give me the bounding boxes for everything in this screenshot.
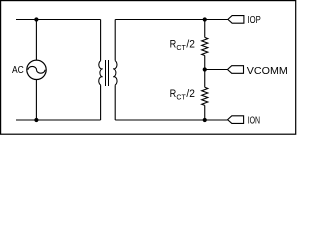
- transformer T1 primary lead: [100, 20, 102, 61]
- transformer core line 2: [108, 60, 110, 86]
- terminal tag ION: [228, 116, 244, 124]
- wire: resistor R2 to ION junction: [204, 105, 206, 120]
- transformer T1 primary winding: [99, 61, 103, 85]
- transformer T1 secondary winding: [113, 61, 117, 85]
- wire: secondary top to IOP: [115, 19, 228, 21]
- label RCT/2 upper: [170, 38, 195, 51]
- wire: AC source vertical bottom: [35, 80, 37, 120]
- AC source V1 circle: [27, 60, 46, 79]
- svg-text:R: R: [170, 88, 177, 100]
- svg-text:AC: AC: [12, 65, 24, 76]
- resistor R1 (RCT/2) zigzag: [202, 37, 208, 55]
- transformer core line 1: [105, 60, 107, 86]
- wire: left loop top: [16, 19, 101, 21]
- svg-text:R: R: [170, 38, 177, 50]
- svg-text:/2: /2: [186, 88, 195, 100]
- wire: VCOMM junction to resistor R2: [204, 70, 206, 88]
- terminal tag VCOMM: [228, 66, 244, 74]
- node: junction dot bottom of AC source: [34, 118, 38, 122]
- node: junction dot top of AC source: [34, 17, 38, 21]
- svg-text:IOP: IOP: [248, 15, 262, 26]
- svg-text:ION: ION: [248, 116, 260, 127]
- svg-text:CT: CT: [176, 43, 186, 52]
- wire: secondary bottom to ION: [115, 119, 228, 121]
- wire: junction to resistor R1: [204, 20, 206, 38]
- wire: AC source vertical top: [35, 20, 37, 61]
- wire: VCOMM tap: [205, 69, 228, 71]
- svg-text:CT: CT: [176, 92, 186, 101]
- AC source sine wave: [28, 66, 45, 73]
- transformer T1 secondary lead: [114, 20, 116, 61]
- terminal tag IOP: [228, 16, 244, 24]
- wire: left loop bottom: [16, 119, 101, 121]
- resistor R2 (RCT/2) zigzag: [202, 87, 208, 105]
- svg-text:/2: /2: [186, 38, 195, 50]
- border frame: [1, 1, 296, 135]
- node: junction dot ION: [203, 118, 207, 122]
- node: junction dot VCOMM: [203, 67, 207, 71]
- wire: resistor R1 to VCOMM junction: [204, 56, 206, 70]
- node: junction dot IOP: [203, 17, 207, 21]
- label RCT/2 lower: [170, 88, 195, 102]
- svg-text:VCOMM: VCOMM: [247, 66, 288, 77]
